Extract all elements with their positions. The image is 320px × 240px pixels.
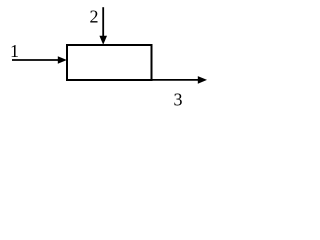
arrowhead 2 (99, 36, 107, 45)
svg-text:2: 2 (90, 7, 99, 27)
arrowhead 1 (58, 56, 67, 64)
process box (67, 45, 152, 80)
wire arrow 1 (left input) (12, 59, 59, 61)
svg-text:3: 3 (174, 90, 183, 110)
arrowhead 3 (198, 76, 207, 84)
wire arrow 3 (output) (152, 79, 200, 81)
wire arrow 2 (top input) (102, 7, 104, 36)
svg-text:1: 1 (10, 41, 19, 61)
